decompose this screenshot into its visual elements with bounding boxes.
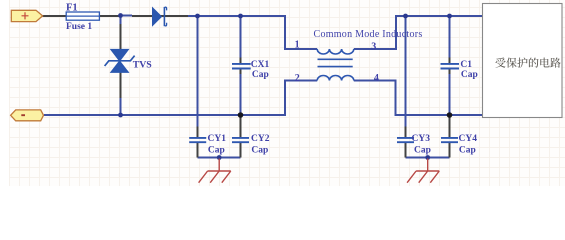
svg-text:F1: F1: [66, 2, 78, 13]
svg-text:3: 3: [371, 41, 376, 52]
svg-text:Cap: Cap: [414, 146, 431, 156]
svg-text:Cap: Cap: [252, 70, 269, 80]
svg-text:Cap: Cap: [208, 146, 225, 156]
svg-text:Cap: Cap: [461, 70, 478, 80]
svg-text:2: 2: [295, 73, 300, 84]
svg-text:1: 1: [295, 39, 300, 50]
svg-text:CY4: CY4: [459, 134, 478, 144]
svg-text:CX1: CX1: [251, 60, 270, 70]
svg-text:Fuse 1: Fuse 1: [66, 22, 92, 32]
svg-text:4: 4: [374, 73, 379, 84]
svg-text:CY3: CY3: [412, 134, 431, 144]
svg-text:C1: C1: [460, 60, 472, 70]
svg-text:Common Mode Inductors: Common Mode Inductors: [314, 29, 423, 40]
svg-text:Cap: Cap: [459, 146, 476, 156]
svg-text:CY2: CY2: [251, 134, 270, 144]
svg-text:TVS: TVS: [133, 59, 153, 70]
svg-text:Cap: Cap: [251, 146, 268, 156]
svg-text:CY1: CY1: [208, 134, 227, 144]
